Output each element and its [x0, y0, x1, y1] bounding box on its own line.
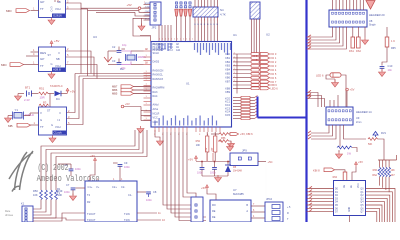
resistor R20 / net KD 0	[233, 52, 277, 56]
wire	[256, 19, 258, 61]
svg-text:+5V: +5V	[188, 158, 193, 162]
svg-text:MID: MID	[1, 63, 7, 67]
wire	[326, 75, 335, 79]
svg-text:VCC: VCC	[358, 183, 360, 188]
wire	[307, 48, 312, 50]
resistor R26 / net KD 6	[233, 76, 277, 80]
capacitor C3	[112, 59, 126, 71]
svg-text:U1: U1	[233, 33, 237, 37]
resistor R47	[55, 190, 58, 200]
resistor R3	[39, 101, 49, 107]
wire	[90, 163, 95, 181]
wire	[366, 198, 388, 222]
wire	[383, 150, 385, 160]
wire xtal pins	[131, 50, 144, 52]
wire	[31, 64, 39, 66]
ground	[48, 18, 55, 25]
bottom pin	[349, 216, 351, 223]
svg-text:V: V	[40, 111, 42, 115]
resistor RL3	[385, 167, 388, 177]
wire	[197, 0, 199, 7]
node MB6	[112, 88, 151, 92]
svg-text:RO: RO	[212, 204, 216, 207]
svg-text:TXD: TXD	[145, 7, 150, 9]
svg-text:R3: R3	[43, 101, 47, 105]
wire	[366, 205, 383, 222]
svg-text:JP10: JP10	[266, 197, 273, 201]
svg-text:2mm: 2mm	[356, 121, 361, 124]
wire	[49, 94, 51, 108]
resistor R53	[214, 136, 223, 152]
svg-text:DS1: DS1	[349, 50, 354, 53]
wire	[307, 39, 312, 41]
svg-text:R52: R52	[196, 140, 201, 143]
resistor RL1	[378, 167, 381, 177]
svg-text:ST: ST	[48, 53, 52, 57]
wire	[359, 0, 361, 10]
svg-text:C9: C9	[124, 161, 128, 165]
svg-text:C2-: C2-	[121, 185, 125, 189]
svg-text:C2: C2	[112, 45, 116, 49]
wire	[206, 153, 208, 161]
svg-text:50K: 50K	[368, 143, 373, 146]
svg-text:+5V: +5V	[70, 90, 75, 94]
svg-text:VCC: VCC	[145, 19, 150, 21]
svg-text:KBI 8: KBI 8	[313, 169, 320, 173]
wire	[189, 16, 191, 42]
wire	[206, 152, 208, 161]
resistor R27 / net KD 7	[233, 80, 277, 84]
resistor R24 / net KD 4	[233, 68, 277, 72]
ic U7	[210, 200, 251, 222]
wire	[31, 124, 39, 126]
svg-text:A28.8: A28.8	[53, 68, 61, 72]
connector MID3	[8, 123, 31, 128]
wire	[32, 93, 39, 95]
bottom pin labels	[154, 121, 155, 126]
resistor R48	[50, 190, 53, 200]
test point TP4	[188, 2, 191, 16]
wire	[54, 0, 56, 2]
svg-text:MB7: MB7	[112, 85, 118, 89]
wire	[33, 218, 85, 220]
wire	[48, 93, 54, 95]
svg-text:R65: R65	[391, 47, 396, 50]
ground	[336, 152, 343, 159]
top pin labels	[194, 43, 195, 50]
wire	[344, 184, 346, 186]
pin stubs	[144, 4, 151, 6]
svg-text:100n: 100n	[210, 172, 216, 175]
wire	[253, 19, 255, 57]
wire	[349, 0, 351, 10]
svg-text:KD 1: KD 1	[271, 56, 277, 60]
wire	[213, 0, 215, 7]
svg-text:KB7: KB7	[225, 80, 230, 83]
wire	[58, 163, 71, 165]
svg-text:KB9: KB9	[225, 91, 230, 94]
wire +5 drop	[270, 161, 272, 198]
power arrow	[366, 1, 375, 10]
svg-text:Da: Da	[120, 67, 124, 71]
wire	[364, 27, 366, 38]
test point TP1	[175, 2, 178, 16]
wire	[119, 170, 121, 181]
svg-text:R6A: R6A	[372, 174, 377, 177]
svg-text:1 K: 1 K	[391, 39, 395, 43]
op-amp U4	[39, 0, 66, 18]
wire	[341, 75, 346, 107]
resistor RL2	[381, 167, 384, 177]
wire to xtal	[121, 51, 131, 54]
connector JP10	[265, 197, 283, 222]
pin7 wire	[66, 65, 98, 79]
svg-text:LED 6: LED 6	[271, 87, 279, 91]
svg-text:KB3: KB3	[225, 65, 230, 68]
svg-text:+5V: +5V	[201, 186, 206, 190]
resistor R52	[196, 136, 209, 152]
svg-text:100n: 100n	[75, 167, 81, 171]
resistor R65 1K	[385, 27, 396, 50]
wire pin6	[66, 9, 88, 76]
bus entry	[307, 95, 312, 97]
diode D5	[225, 162, 242, 177]
svg-text:C2+: C2+	[112, 185, 117, 189]
svg-text:KD 6: KD 6	[271, 76, 277, 80]
svg-text:KD 2: KD 2	[271, 60, 277, 64]
wire	[352, 148, 357, 153]
node MB7	[112, 85, 151, 89]
svg-text:di linea: di linea	[5, 214, 14, 217]
svg-text:10n: 10n	[388, 68, 393, 72]
svg-text:KD 4: KD 4	[271, 68, 277, 72]
wire	[170, 25, 172, 42]
svg-text:NB: NB	[56, 57, 60, 61]
svg-text:G: G	[51, 123, 53, 127]
wire	[258, 19, 260, 65]
wire	[366, 189, 396, 223]
wire	[352, 0, 354, 10]
svg-text:HEADER 14: HEADER 14	[356, 110, 372, 114]
svg-text:KD 3: KD 3	[271, 64, 277, 68]
svg-text:U1: U1	[186, 82, 190, 86]
wire T1IN	[137, 212, 157, 214]
wire	[339, 0, 341, 10]
svg-text:2.4V: 2.4V	[24, 98, 30, 102]
svg-text:MB: MB	[8, 124, 13, 128]
capacitor C10	[380, 64, 393, 72]
svg-text:MB6: MB6	[112, 88, 118, 92]
ic U6 latch	[334, 181, 366, 216]
wire	[366, 212, 377, 222]
svg-text:BT1: BT1	[25, 86, 31, 90]
svg-text:P2.2: P2.2	[168, 50, 173, 52]
svg-text:KB2: KB2	[225, 61, 230, 64]
svg-text:NB: NB	[57, 0, 61, 4]
connector J1 HEADER 20	[329, 10, 385, 27]
svg-text:GP: GP	[40, 57, 44, 61]
+5V	[346, 88, 349, 91]
wire	[366, 202, 385, 222]
wire	[382, 47, 387, 66]
svg-text:T2IN: T2IN	[124, 218, 130, 222]
svg-text:+5V: +5V	[127, 3, 132, 7]
wire	[26, 55, 39, 57]
svg-text:DE: DE	[212, 216, 216, 219]
wire stub	[141, 120, 151, 122]
svg-text:I I: I I	[59, 111, 61, 115]
wire	[363, 0, 365, 10]
jumper JP9	[230, 149, 258, 166]
resistor / net KBI 6	[233, 83, 277, 87]
svg-text:+BT: +BT	[211, 147, 214, 152]
wire rows	[81, 7, 138, 9]
wire	[207, 0, 209, 7]
svg-text:CE: CE	[344, 184, 346, 188]
svg-text:+5V: +5V	[54, 39, 59, 43]
+5V	[121, 105, 124, 108]
wire pin5	[66, 3, 82, 74]
ground	[70, 194, 77, 201]
wire	[200, 0, 202, 7]
connector J2 HEADER 14	[326, 107, 372, 125]
connector MID2	[1, 63, 24, 67]
connector MID	[6, 9, 30, 13]
wire	[210, 0, 212, 7]
wire	[388, 160, 390, 167]
wire	[342, 0, 344, 10]
svg-text:RA4: RA4	[153, 95, 158, 98]
resistor RL4	[388, 167, 391, 177]
wire	[307, 188, 334, 190]
svg-text:R64: R64	[333, 176, 338, 179]
wire	[307, 36, 312, 38]
bus wire row3	[83, 78, 151, 80]
svg-text:10MHz: 10MHz	[25, 113, 35, 117]
crystal X1	[126, 54, 147, 61]
wire	[307, 191, 334, 193]
svg-text:TA4007LC: TA4007LC	[50, 84, 63, 88]
wire	[124, 106, 141, 108]
svg-text:C10: C10	[388, 64, 393, 68]
svg-text:R66: R66	[373, 169, 378, 172]
ground	[379, 70, 386, 77]
capacitor C9	[113, 161, 130, 170]
wire	[185, 16, 187, 42]
bus wire row2	[79, 75, 151, 77]
pin wires right	[67, 74, 76, 113]
resistor network RN4	[193, 7, 226, 17]
wire	[307, 204, 334, 206]
wire vertical	[236, 54, 238, 94]
connector JP2	[150, 2, 161, 30]
led LED6	[316, 73, 341, 78]
node MB5	[112, 92, 151, 96]
wire	[332, 0, 334, 10]
wire loop	[133, 18, 150, 36]
wire	[207, 190, 216, 200]
op-amp U3	[39, 47, 66, 72]
wire stub	[141, 115, 151, 117]
capacitor C12	[210, 162, 217, 177]
wire bundle to RS232	[163, 132, 191, 205]
svg-text:10K: 10K	[391, 169, 396, 172]
ground	[157, 139, 164, 146]
svg-text:I I: I I	[58, 51, 60, 55]
small box B1	[191, 197, 203, 222]
ground	[137, 126, 144, 133]
resistor R51	[39, 87, 49, 100]
svg-text:MB5: MB5	[112, 92, 118, 96]
svg-text:C3: C3	[112, 59, 116, 63]
power symbol +5V	[50, 41, 53, 47]
svg-text:+5V: +5V	[90, 154, 95, 158]
resistor KB row 6	[233, 114, 258, 117]
+5V	[93, 158, 96, 164]
svg-text:+5V, KBI 6: +5V, KBI 6	[240, 132, 253, 136]
svg-text:LE: LE	[351, 185, 353, 188]
wire	[183, 132, 191, 197]
+5V	[354, 162, 357, 168]
wire	[18, 93, 24, 95]
wire	[155, 130, 160, 139]
wire	[61, 93, 67, 95]
svg-text:N4: N4	[220, 8, 224, 12]
wire	[307, 211, 334, 213]
svg-text:+5C: +5C	[268, 160, 273, 164]
resistor / net LED 6	[233, 87, 278, 91]
wire	[258, 161, 266, 163]
svg-text:GP: GP	[40, 0, 44, 4]
+5V	[194, 156, 197, 162]
wire	[216, 0, 218, 7]
svg-text:D4: D4	[56, 97, 60, 101]
svg-text:A10: A10	[176, 49, 181, 52]
svg-text:+5V: +5V	[125, 102, 130, 106]
svg-text:C8: C8	[153, 190, 157, 194]
svg-text:GND: GND	[145, 15, 150, 17]
wire	[307, 201, 334, 203]
wire	[31, 51, 39, 53]
svg-text:JP9: JP9	[242, 149, 247, 153]
wire	[176, 16, 178, 42]
bottom pin stubs	[155, 127, 220, 132]
node KBI 6	[230, 132, 253, 136]
wire stub	[141, 110, 151, 112]
svg-text:U3: U3	[93, 35, 97, 39]
wire	[307, 197, 334, 199]
svg-text:+5V: +5V	[205, 147, 208, 152]
svg-text:KB5: KB5	[225, 73, 230, 76]
bus wire vertical	[257, 97, 259, 118]
svg-text:HEADER 20: HEADER 20	[369, 13, 385, 17]
svg-text:1N4148: 1N4148	[233, 170, 242, 173]
ground	[48, 72, 55, 79]
wire	[385, 160, 387, 167]
wire	[167, 25, 169, 42]
svg-text:10K: 10K	[33, 193, 38, 197]
svg-text:RV1: RV1	[381, 131, 387, 135]
svg-text:SCLK: SCLK	[153, 52, 160, 55]
battery BT1	[24, 86, 32, 103]
test point TP3	[184, 2, 187, 16]
ground	[215, 175, 222, 182]
svg-text:G: G	[40, 118, 42, 122]
wire	[379, 160, 381, 167]
resistor R56	[219, 137, 235, 146]
svg-text:RES: RES	[40, 51, 46, 55]
svg-text:RA0/SCL: RA0/SCL	[153, 74, 164, 77]
oscillator U2	[39, 107, 67, 135]
svg-text:V+: V+	[96, 185, 100, 189]
ground	[141, 18, 143, 26]
wire	[346, 91, 348, 107]
svg-text:C1-: C1-	[128, 193, 132, 197]
svg-text:LED 6: LED 6	[316, 74, 324, 78]
wire	[345, 0, 347, 10]
capacitor C6	[64, 163, 81, 176]
bus wire horizontal	[258, 117, 307, 119]
svg-text:TT: TT	[40, 7, 44, 11]
wire T2IN	[137, 219, 161, 221]
wire	[202, 175, 228, 177]
wire	[33, 213, 85, 221]
resistor R55	[219, 133, 229, 136]
svg-text:RA6/SCX: RA6/SCX	[153, 78, 164, 81]
ic U5 MAX232	[85, 181, 137, 222]
+5V	[66, 88, 69, 94]
svg-text:VCH: VCH	[55, 125, 61, 129]
svg-text:T1IN: T1IN	[124, 212, 130, 216]
ground	[15, 94, 22, 101]
resistor DS2	[357, 37, 361, 48]
wire	[204, 0, 206, 7]
svg-text:RA3: RA3	[153, 91, 158, 94]
wire	[194, 0, 196, 7]
ground	[104, 57, 112, 62]
svg-text:R1: R1	[57, 187, 61, 191]
svg-text:10K: 10K	[196, 144, 201, 147]
svg-text:KC5: KC5	[225, 114, 230, 117]
svg-text:R: R	[287, 212, 289, 215]
bus wire row1	[75, 73, 151, 75]
svg-text:G: G	[51, 62, 53, 66]
ground	[49, 136, 56, 143]
wire	[307, 45, 312, 47]
svg-text:4.7K: 4.7K	[220, 13, 226, 17]
svg-text:C7: C7	[66, 183, 70, 187]
svg-text:AVss: AVss	[153, 108, 159, 111]
resistor 1W	[337, 146, 352, 156]
resistor R21 / net KD 1	[233, 56, 277, 60]
node KBI 8	[313, 168, 335, 173]
wire	[356, 0, 358, 10]
svg-text:U2: U2	[266, 33, 270, 37]
svg-text:JP2: JP2	[152, 26, 157, 30]
wire	[229, 133, 231, 135]
wire	[335, 0, 337, 10]
wire osc2	[108, 63, 117, 65]
wire	[158, 25, 160, 42]
resistor KB row 3	[233, 105, 258, 108]
wires below header	[311, 27, 333, 37]
svg-text:DAD3: DAD3	[153, 61, 160, 64]
svg-text:VCH: VCH	[55, 7, 61, 11]
connector K1	[21, 202, 33, 223]
wire	[31, 10, 39, 12]
wire	[24, 64, 31, 66]
svg-text:VCC: VCC	[153, 117, 158, 120]
